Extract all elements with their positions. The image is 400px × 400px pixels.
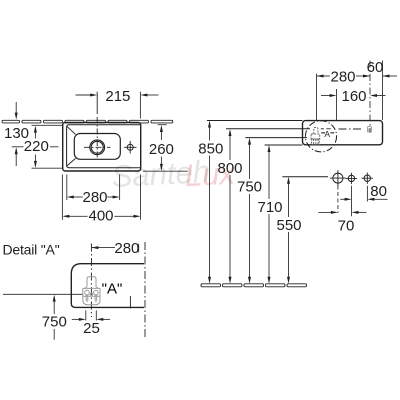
svg-text:60: 60	[367, 59, 384, 76]
svg-text:550: 550	[276, 217, 301, 234]
svg-text:850: 850	[198, 140, 223, 157]
svg-text:280: 280	[114, 240, 139, 257]
svg-text:750: 750	[237, 179, 262, 196]
svg-text:800: 800	[217, 160, 242, 177]
svg-text:710: 710	[257, 199, 282, 216]
svg-text:215: 215	[105, 88, 130, 105]
svg-text:Detail "A": Detail "A"	[3, 242, 60, 258]
svg-text:280: 280	[330, 68, 355, 85]
svg-text:"A": "A"	[102, 280, 123, 297]
svg-text:25: 25	[83, 320, 100, 337]
svg-text:750: 750	[42, 313, 67, 330]
svg-text:280: 280	[82, 189, 107, 206]
svg-text:70: 70	[338, 217, 355, 234]
svg-text:A: A	[324, 129, 330, 139]
svg-text:80: 80	[370, 183, 387, 200]
svg-text:260: 260	[149, 141, 174, 158]
svg-text:160: 160	[341, 88, 366, 105]
svg-text:400: 400	[88, 208, 113, 225]
svg-text:220: 220	[24, 138, 49, 155]
